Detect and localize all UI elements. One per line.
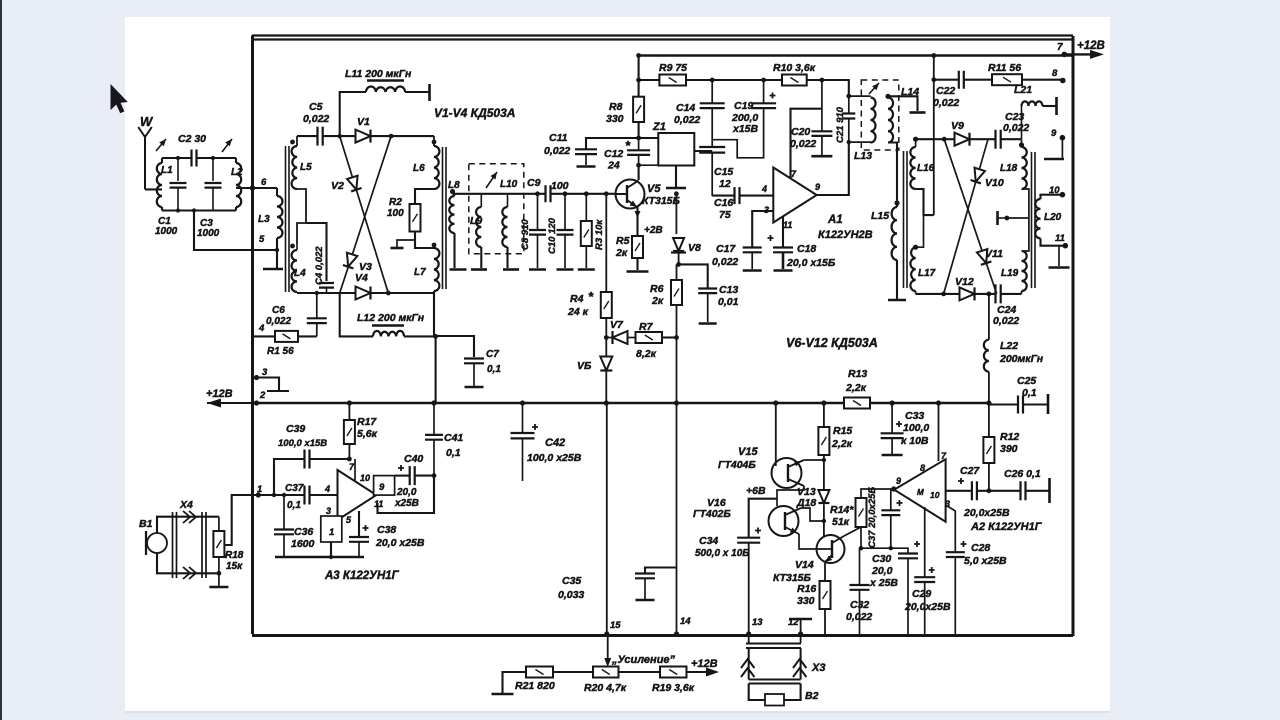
wire A1 pin7 up [791,109,822,179]
svg-text:20,0: 20,0 [871,565,893,577]
svg-text:100,0 х15В: 100,0 х15В [278,438,327,449]
inductor L12 [373,331,404,337]
op-amp A3 [338,470,377,520]
wire C24 junction down [988,294,990,340]
phase dot L14 [885,94,890,99]
inductor L7 [434,248,439,291]
wire R9 chain [639,79,660,81]
pin 1 dot [256,492,261,497]
wire R14 top [861,489,894,498]
pin 8 dot [1060,78,1066,84]
wire pin4 to R1 [254,335,275,337]
capacitor C7 [464,359,484,364]
quartz Z1 [658,133,694,166]
capacitor C36 [274,530,294,535]
ground L9 [471,268,487,271]
inductor L4 [292,250,297,292]
capacitor C1 [177,158,179,181]
wire A1 pin11 to C18 [782,216,784,247]
V16 emitter arrow [790,528,798,536]
svg-text:С5: С5 [309,101,323,113]
inductor L3 [276,188,278,196]
ring1 diagonal A [340,136,389,293]
wire R9 to R10 [686,79,782,81]
svg-text:R5: R5 [616,235,630,247]
ground X4 [209,586,228,589]
svg-text:100,0: 100,0 [903,422,929,434]
svg-text:20,0х25В: 20,0х25В [904,601,951,613]
svg-text:0,022: 0,022 [933,97,959,109]
junction Z1 top [636,136,641,141]
wire R15 to V13 [823,455,825,489]
resistor R18 [213,531,224,557]
svg-text:2,2к: 2,2к [831,438,853,450]
end bar L11 [428,84,431,101]
wire R5 down [636,258,638,270]
ground L10 [503,268,519,271]
svg-text:6: 6 [261,177,267,188]
wire L16 L17 center tap [916,189,934,215]
capacitor C7 branch [435,336,437,403]
capacitor C32 [859,548,861,585]
resistor R17 [344,420,355,444]
wire carrier from rail [933,56,935,216]
svg-text:8,2к: 8,2к [636,348,657,360]
pin 9 stub [1060,135,1066,141]
tbar L14 [910,111,926,114]
svg-text:390: 390 [1000,443,1018,455]
wire ring1 top [297,135,318,137]
ground C17 [743,269,762,272]
wire V5 collector [638,165,640,180]
shield dashed box 1 [469,164,524,254]
svg-text:+12В: +12В [691,658,718,670]
svg-text:С40: С40 [404,453,423,465]
svg-text:1600: 1600 [291,538,315,550]
svg-text:R4: R4 [570,293,584,305]
junction C6 top [315,291,319,295]
underline L12 [372,324,404,326]
capacitor C5 [318,127,323,146]
junction R12 C27 [987,488,992,493]
wire R8 column [638,56,640,97]
ground R3 [578,268,595,271]
core lines T4 [1032,152,1036,288]
center tap bar L6L7 [397,240,415,247]
capacitor C40 [398,465,415,485]
capacitor C16 [735,187,740,204]
junction ring2 top [942,137,947,142]
earphone B2 [765,694,784,706]
diode V9 [955,133,970,146]
diode V1 [356,130,371,143]
svg-text:5: 5 [259,234,265,245]
wire L14 top stub [888,96,918,111]
diode V7 [606,337,620,339]
svg-text:0,022: 0,022 [712,256,738,268]
diode VB [600,357,612,371]
svg-text:24 к: 24 к [567,306,589,318]
wire pin3 bracket [257,378,280,392]
page bottom shade [125,711,1110,713]
svg-text:8: 8 [920,463,925,473]
svg-text:20,0 х15Б: 20,0 х15Б [786,257,836,269]
wire L6 L7 center link [415,189,434,204]
svg-text:А1: А1 [827,214,843,226]
svg-text:0,022: 0,022 [544,145,570,157]
capacitor C30 [891,548,908,553]
capacitor C6 [316,292,318,319]
end bar C26 [1048,478,1051,503]
capacitor C42 branch [522,403,524,433]
phase dot L17 [913,245,918,250]
V16 leads [785,508,801,534]
diode V4 [356,287,371,300]
svg-text:20,0х25В: 20,0х25В [963,507,1010,519]
svg-text:R13: R13 [848,368,867,380]
svg-text:0,022: 0,022 [266,316,291,327]
wire V15 collector [804,459,824,461]
capacitor C19 branch [763,80,765,103]
svg-text:R8: R8 [609,101,623,113]
svg-text:V1: V1 [357,116,370,128]
wire top +12V rail [639,54,1073,56]
svg-text:V6-V12 КД503А: V6-V12 КД503А [786,336,878,350]
inductor L5 [296,136,298,146]
svg-text:R14*: R14* [830,504,854,516]
svg-text:С10 120: С10 120 [547,217,558,254]
svg-text:1: 1 [329,527,334,538]
core lines T3 [904,151,908,288]
junction C40 C41 [432,473,437,478]
svg-text:11: 11 [1055,233,1065,244]
wire ring1 bottom [297,292,434,294]
svg-text:L10: L10 [500,179,518,190]
junction ring1 topleft [338,134,342,138]
ground C10 [557,268,574,271]
wire C13 branch [679,264,708,288]
junction C20 top [820,78,825,83]
capacitor C12 [638,138,640,150]
svg-text:С28: С28 [971,542,990,554]
X3 chevron right [793,659,806,677]
ground C13 [699,322,717,325]
svg-text:0,1: 0,1 [446,447,461,459]
svg-text:С14: С14 [676,102,695,114]
resistor R19 [660,667,687,678]
resistor R12 column [988,403,990,437]
junction C3 top [211,156,215,160]
svg-text:Z1: Z1 [652,121,666,133]
ground C35 [636,599,655,602]
inductor L15 [892,207,897,260]
svg-text:C9: C9 [527,177,541,189]
wire V15 emitter node [777,486,804,506]
X4 chevrons bottom [183,567,196,579]
svg-text:А2 К122УН1Г: А2 К122УН1Г [970,521,1043,533]
svg-text:L17: L17 [918,268,936,279]
microphone B1 [147,533,167,553]
phase dot L15 [894,200,899,205]
capacitor C41 [433,403,435,435]
svg-text:V15: V15 [738,446,758,458]
svg-text:11: 11 [783,220,792,230]
capacitor C9 [546,185,551,202]
resistor R21 [526,667,553,678]
wire L14 to L15 [888,143,897,208]
wire V14 collector node [861,527,891,548]
wire block to bus [330,542,332,557]
svg-text:4: 4 [258,323,265,334]
svg-text:V5: V5 [647,183,661,195]
svg-text:С37: С37 [285,483,304,494]
wire A1 output [817,142,849,195]
svg-text:V11: V11 [985,248,1003,260]
inductor L22 [984,340,989,372]
capacitor C26 [1021,481,1026,500]
junction L3 pin5 [275,248,279,252]
capacitor C21 [848,96,850,113]
capacitor C27 [958,478,977,500]
wire pin15 down arrow [607,636,609,664]
capacitor C35 branch [645,568,677,574]
diode V2 [347,176,361,192]
diode V10 [971,168,985,184]
svg-text:R15: R15 [833,425,852,437]
varicap V8 [673,238,684,251]
resistor R4 [601,292,612,318]
resistor R11 [992,74,1022,85]
wire +12V out arrow [1064,53,1098,55]
wire L1 top stub [161,158,163,163]
op-amp A2 [894,459,945,522]
resistor R5 [632,236,643,258]
wire L15 down [896,260,898,299]
tap bar ring2 [996,211,999,225]
junction L12 L7 [433,334,438,339]
capacitor C25 [1018,396,1023,414]
wire L18 L19 center tap [1022,189,1029,251]
ground L8 [450,268,467,271]
svg-text:14: 14 [680,616,691,627]
svg-text:ГТ404Б: ГТ404Б [718,459,756,471]
wire C34 to pin 13 [748,543,750,634]
transistor V14 [817,535,845,563]
resistor R6 [676,264,678,280]
svg-text:24: 24 [607,160,620,172]
wire R19 +12V arrow [687,671,713,673]
svg-text:8: 8 [1052,68,1058,79]
core lines T1 [286,146,290,292]
resistor R20 [593,667,619,678]
svg-text:2,2к: 2,2к [845,382,867,394]
svg-text:R6: R6 [650,283,664,295]
wire R21 to ground [503,672,527,693]
svg-text:ГТ402Б: ГТ402Б [693,508,731,520]
svg-text:0,1: 0,1 [487,364,501,375]
scan page background [125,17,1110,712]
capacitor C38 branch [358,511,360,537]
capacitor C10 branch [563,191,568,196]
capacitor C36 branch [283,495,285,530]
wire L10 down [506,247,508,268]
svg-text:15к: 15к [226,561,243,572]
wire +6V node to C34 [749,499,777,537]
wire V13 down [823,505,825,539]
end bar L21 [1055,97,1058,115]
ring2 diagonal B [944,139,988,294]
ground C8 [529,268,546,271]
svg-text:С37 20,0х25Б: С37 20,0х25Б [867,487,878,548]
wire signal line V5 base [453,193,546,195]
svg-text:Х4: Х4 [179,499,193,511]
svg-text:75: 75 [719,209,731,221]
svg-text:R10 3,6к: R10 3,6к [773,62,816,74]
svg-text:С39: С39 [286,423,305,435]
core lines T2 [443,147,447,289]
svg-text:4: 4 [324,484,330,494]
svg-text:С18: С18 [797,243,816,255]
junction ring1 bottom [386,291,391,296]
svg-text:С25: С25 [1017,375,1036,387]
resistor R16 [824,563,826,581]
svg-text:0,022: 0,022 [303,113,329,125]
inductor L10 [507,194,509,207]
diode V13 [818,490,829,503]
ground C18 [774,269,793,272]
capacitor C33 branch [890,400,895,405]
svg-text:R7: R7 [639,321,654,333]
svg-text:х 25В: х 25В [869,577,898,589]
wire R16 to border [824,609,826,634]
schematic border frame [252,36,1073,40]
phase dot L8 [450,189,455,194]
svg-text:13: 13 [752,617,763,628]
diode V11 [977,249,991,265]
resistor R10 [782,75,807,86]
svg-text:V2: V2 [331,180,344,192]
phase dot L5 [290,140,295,145]
svg-text:1000: 1000 [155,226,178,237]
wire R4 column [605,194,607,292]
svg-text:V3: V3 [359,261,372,273]
shield dashed box 2 [861,80,899,150]
svg-text:V7: V7 [610,319,624,331]
svg-text:L5: L5 [300,162,312,173]
V14 leads [816,536,844,562]
svg-text:20,0: 20,0 [396,487,417,498]
wire R18 to pin1 [224,495,254,545]
svg-text:R17: R17 [357,416,377,428]
wire R1 to C6 [298,335,317,337]
wire C4 tap [306,223,327,281]
A3 pin9 box [374,476,395,496]
svg-text:15: 15 [610,620,621,631]
junction C1 bottom [176,208,180,212]
svg-text:В2: В2 [805,690,819,702]
svg-text:0,033: 0,033 [558,589,584,601]
capacitor C39 [305,450,310,469]
tbar pin9 [1044,158,1064,161]
svg-text:С7: С7 [486,349,499,360]
tbar below pin 11 [1058,246,1060,266]
svg-text:х15В: х15В [732,123,759,135]
inductor L13 [849,95,871,97]
phase dot L18 [1019,142,1024,147]
svg-text:0,022: 0,022 [846,611,872,623]
connector X3 blades top [746,644,801,649]
svg-text:R20 4,7к: R20 4,7к [584,682,627,694]
svg-text:R1 56: R1 56 [267,346,294,357]
wire A3 pin7 [354,459,356,482]
svg-text:0,022: 0,022 [993,315,1019,327]
ground C7 [465,386,484,389]
wire C19 to C15 node [712,108,763,158]
svg-text:Х3: Х3 [811,662,825,674]
svg-text:0,022: 0,022 [790,138,816,150]
capacitor C4 [319,283,334,288]
capacitor C34 [737,528,761,543]
wire filter top right [197,157,236,159]
capacitor C22 [934,79,959,81]
svg-text:11: 11 [374,499,383,509]
svg-text:2: 2 [259,390,266,401]
svg-text:А3 К122УН1Г: А3 К122УН1Г [324,570,400,582]
svg-text:R21 820: R21 820 [515,680,555,692]
ground L3 [263,268,283,271]
trimmer arrow L13 [869,83,879,94]
junction R17 C39 [347,457,352,462]
svg-text:С15: С15 [714,166,733,178]
wire pin13 down [748,636,750,643]
capacitor C18 [768,235,794,252]
V15 emitter arrow [794,459,802,467]
wire rail to pin 14 [676,403,678,634]
junction rail pin14 [674,400,679,405]
junction V7 [604,335,609,340]
pin 7 dot [1062,52,1068,58]
svg-text:КТ315Б: КТ315Б [642,195,681,207]
svg-text:С26 0,1: С26 0,1 [1004,468,1041,480]
inductor L2 [236,163,241,207]
capacitor C23 [996,130,1001,149]
svg-text:L13: L13 [854,150,872,162]
svg-text:„Усиление”: „Усиление” [611,654,676,666]
svg-text:С33: С33 [905,410,924,422]
svg-text:51к: 51к [832,516,850,528]
svg-text:0,01: 0,01 [718,296,739,308]
svg-text:L11 200 мкГн: L11 200 мкГн [345,68,412,80]
+12V rail arrow left [207,402,253,404]
svg-text:R12: R12 [1000,431,1019,443]
svg-text:R19 3,6к: R19 3,6к [652,682,695,694]
svg-text:С17: С17 [716,243,736,255]
svg-text:L20: L20 [1044,212,1062,223]
wire filter out to pin 6 [236,187,277,189]
inductor L11 [366,87,405,92]
resistor R14 [856,498,867,527]
trimmer arrow C1 [156,139,166,151]
svg-text:0,022: 0,022 [674,114,700,126]
capacitor C38 [349,525,369,542]
svg-text:L6: L6 [413,163,425,174]
earphone B2 loop [749,684,765,701]
wire antenna to filter [145,188,162,190]
wire C40 output [395,475,410,477]
pin 12 tbar [800,620,802,634]
junction rail border [254,400,259,405]
junction C24 left [987,292,992,297]
